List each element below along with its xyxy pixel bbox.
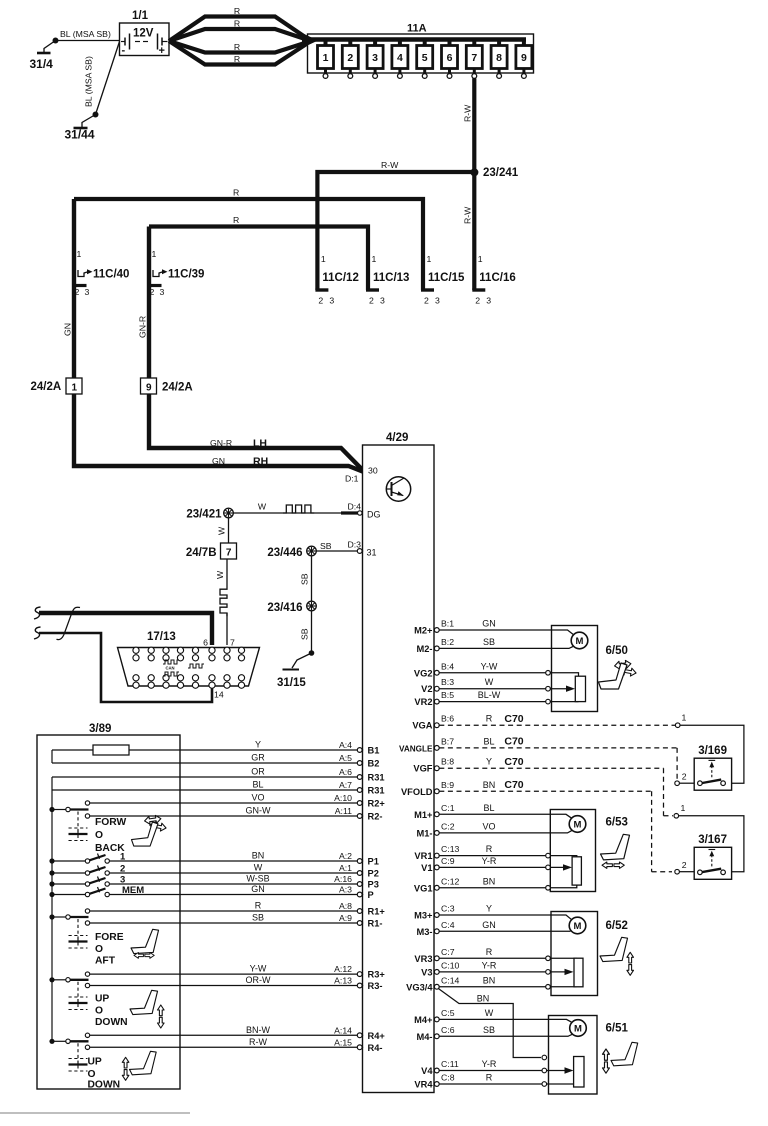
svg-text:R31: R31 [368,773,385,783]
svg-text:D:1: D:1 [345,474,359,484]
svg-text:1: 1 [120,852,126,863]
svg-text:VR3: VR3 [414,954,432,964]
svg-text:B:8: B:8 [441,757,454,767]
svg-text:BN: BN [483,876,496,886]
svg-text:1: 1 [321,254,326,264]
wire BN VG3/4 to 6/52 sensor [439,986,576,988]
wire R-W junction to connector 11C/16 [463,172,475,290]
svg-text:M: M [574,820,582,831]
svg-text:C:6: C:6 [441,1025,455,1035]
svg-text:W: W [215,570,225,579]
pin C:4 M3- of 4/29 [416,920,495,937]
svg-text:C:11: C:11 [441,1059,459,1069]
wire VO M1- to motor 6/53 [439,830,572,833]
svg-text:VG1: VG1 [414,883,433,893]
wire W with pulse signal to pin D:4 [233,502,380,520]
fuse 24/2A (1) [31,378,83,394]
svg-text:Y: Y [255,740,261,750]
svg-text:2: 2 [369,296,374,306]
svg-text:BL (MSA SB): BL (MSA SB) [60,29,111,39]
svg-text:VO: VO [482,821,495,831]
svg-text:R-W: R-W [463,206,473,224]
svg-text:C:10: C:10 [441,960,460,970]
svg-text:3: 3 [329,296,334,306]
svg-text:P3: P3 [368,880,379,890]
svg-text:DOWN: DOWN [95,1017,128,1028]
fuse 5 [417,40,433,79]
svg-text:R2+: R2+ [368,799,386,809]
svg-text:AFT: AFT [95,956,116,967]
seat icon up/down rear [122,1051,156,1080]
svg-text:R: R [234,6,240,16]
svg-text:GN: GN [212,456,225,466]
svg-text:FORW: FORW [95,817,127,828]
wire R VR4 to 6/51 sensor [439,1084,579,1087]
data link connector 17/13 [118,631,260,700]
svg-text:7: 7 [230,638,235,648]
wire W A:1 to 4/29 pin P2 [109,863,378,879]
svg-text:SB: SB [300,573,310,585]
svg-text:M4-: M4- [416,1032,432,1042]
svg-text:M3-: M3- [416,927,432,937]
position sensor resistor element in 3/89 [93,745,129,755]
svg-text:W: W [485,1008,494,1018]
wire GN-R (LH) from 11C/39 to module 4/29 pin 30 [138,227,363,471]
wire BL A:7 to 4/29 pin R31 [52,780,385,796]
motor symbol M 6/51 [570,1020,629,1087]
svg-text:MEM: MEM [122,885,144,896]
switch up/down (rear) in 3/89 [49,1033,120,1090]
svg-text:6: 6 [447,52,453,64]
svg-text:BL (MSA SB): BL (MSA SB) [84,56,94,107]
svg-text:BN-W: BN-W [246,1025,270,1035]
seat icon 6/50 [599,660,637,689]
svg-text:W: W [485,677,494,687]
svg-text:C:4: C:4 [441,920,455,930]
wire SB A:9 to 4/29 pin R1- [90,913,383,929]
svg-text:BN: BN [483,780,496,790]
svg-text:VGA: VGA [412,721,432,731]
svg-text:A:14: A:14 [334,1025,352,1035]
svg-text:B:9: B:9 [441,780,454,790]
svg-text:30: 30 [368,466,378,476]
connector 11C/15 [421,254,465,306]
seat icon 6/51 [603,1042,638,1073]
fuse 8 [491,40,507,79]
svg-text:V1: V1 [421,863,432,873]
wire R VR1 to 6/53 sensor [439,856,577,857]
svg-text:C:12: C:12 [441,876,460,886]
fuse 3 [367,40,383,79]
svg-text:M: M [574,1024,582,1035]
motor 6/52 (front height) box [551,912,598,996]
svg-text:C:14: C:14 [441,975,460,985]
svg-text:A:16: A:16 [334,874,352,884]
svg-text:C70: C70 [504,756,523,768]
page edge line [0,1112,190,1114]
wire Y A:4 to 4/29 pin B1 [52,740,379,756]
svg-text:OR-W: OR-W [246,975,271,985]
svg-text:11C/16: 11C/16 [479,272,515,284]
svg-text:R: R [233,215,239,225]
wire R A:8 to 4/29 pin R1+ [90,901,386,917]
svg-text:1: 1 [681,803,686,813]
pin C:2 M1- of 4/29 [416,821,495,838]
svg-text:2: 2 [424,296,429,306]
svg-text:M: M [574,921,582,932]
svg-text:W: W [217,526,227,535]
svg-text:1/1: 1/1 [132,10,149,22]
svg-text:12V: 12V [133,28,154,40]
svg-text:1: 1 [478,254,483,264]
svg-text:VR2: VR2 [414,697,432,707]
pin B:3 V2 of 4/29 [421,677,494,694]
wire Y-R V3 to 6/52 sensor wiper [439,969,573,975]
svg-text:B2: B2 [368,759,380,769]
svg-text:Y-R: Y-R [482,856,497,866]
wire GN M2+ to motor 6/50 [439,630,573,635]
pin B:1 M2+ of 4/29 [414,619,496,636]
svg-text:11C/12: 11C/12 [322,272,358,284]
svg-text:1: 1 [427,254,432,264]
svg-text:VG3/4: VG3/4 [406,982,433,992]
svg-text:FORE: FORE [95,932,124,943]
fuse 4 [392,40,408,79]
svg-text:GN: GN [63,323,73,336]
svg-text:A:9: A:9 [339,913,352,923]
svg-text:1: 1 [682,713,687,723]
svg-text:R: R [486,947,493,957]
wire SB 23/446 to 23/416 [300,556,312,601]
svg-text:B:1: B:1 [441,619,454,629]
seat icon forward/back [131,815,166,846]
svg-text:Y: Y [486,904,492,914]
svg-text:R1-: R1- [368,919,383,929]
wire Y B:8 (C70) to switch 3/167 pin 1 [439,756,744,872]
svg-text:C:5: C:5 [441,1008,455,1018]
pin C:14 VG3/4 of 4/29 [406,975,495,992]
svg-text:3: 3 [435,296,440,306]
terminals on 6/52 [546,956,551,961]
svg-text:R2-: R2- [368,812,383,822]
svg-text:23/446: 23/446 [267,547,302,559]
pin C:6 M4- of 4/29 [416,1025,495,1042]
wire BL (MSA SB) to battery [56,29,120,41]
svg-text:2: 2 [347,52,353,64]
svg-text:M2+: M2+ [414,626,433,636]
svg-text:24/2A: 24/2A [162,382,193,394]
fuse 7 [466,40,482,79]
seat icon fore/aft [131,929,159,958]
svg-text:31/15: 31/15 [277,677,306,689]
label RH [212,456,268,468]
motor symbol M 6/50 [571,632,628,701]
fuse 24/7B (7) [186,543,237,559]
svg-text:O: O [95,1005,103,1016]
svg-text:D:4: D:4 [347,502,361,512]
terminals on 6/53 [546,853,551,858]
svg-text:A:1: A:1 [339,863,352,873]
memory buttons 1/2/3/MEM in 3/89 [49,852,144,898]
svg-text:6/52: 6/52 [606,920,628,932]
svg-text:B:4: B:4 [441,661,454,671]
svg-text:P: P [368,890,374,900]
wire W from 23/421 down to 24/7B [217,518,229,543]
pin C:3 M3+ of 4/29 [414,904,492,921]
fuse 6 [442,40,458,79]
control module 4/29 [363,432,435,1093]
wire R to connector 11C/15 from 11C/40 branch [74,188,423,291]
svg-text:VO: VO [251,793,264,803]
svg-text:C70: C70 [504,779,523,791]
svg-text:LH: LH [253,438,267,450]
wire BN VG1 to 6/53 sensor [439,885,577,888]
svg-text:P1: P1 [368,857,379,867]
svg-text:3/89: 3/89 [89,723,111,735]
svg-text:9: 9 [521,52,527,64]
svg-text:4: 4 [397,52,403,64]
svg-text:6: 6 [203,638,208,648]
svg-text:B:3: B:3 [441,677,454,687]
svg-text:GN: GN [251,884,265,894]
wire R-W A:15 to 4/29 pin R4- [90,1037,383,1053]
svg-text:R: R [486,1073,493,1083]
pin B:4 VG2 of 4/29 [414,661,498,678]
terminals on 6/51 [542,1055,547,1060]
ground 31/15 [277,670,306,690]
connector 11C/39 [147,249,204,297]
supply rail in 3/89 [51,777,53,1041]
pin C:10 V3 of 4/29 [421,960,497,977]
pin C:7 VR3 of 4/29 [414,947,492,964]
wire VO A:10 to 4/29 pin R2+ [90,793,386,809]
switch fore/aft in 3/89 [49,909,123,967]
wire OR-W A:13 to 4/29 pin R3- [90,975,383,991]
svg-text:P2: P2 [368,869,379,879]
motor 6/53 (fore/aft) box [550,810,595,892]
terminal 23/446 [267,546,316,559]
svg-text:O: O [88,1069,96,1080]
wire W from 24/7B to connector 17/13 pin 7 [215,559,227,645]
svg-text:SB: SB [320,541,332,551]
svg-text:-: - [122,45,126,57]
svg-text:R31: R31 [368,786,385,796]
wire Y-W A:12 to 4/29 pin R3+ [90,964,386,980]
svg-text:A:13: A:13 [334,976,352,986]
svg-text:3: 3 [486,296,491,306]
battery feed wires R (4x) [169,6,311,65]
svg-text:2: 2 [475,296,480,306]
svg-text:DG: DG [367,510,381,520]
svg-text:1: 1 [372,254,377,264]
svg-text:9: 9 [146,383,152,394]
svg-text:Y-R: Y-R [482,1059,497,1069]
svg-text:A:7: A:7 [339,780,352,790]
pin C:11 V4 of 4/29 [421,1059,497,1076]
svg-text:3: 3 [372,52,378,64]
svg-text:11C/13: 11C/13 [373,272,409,284]
wire (thick) to 17/13 pin 6 [34,607,212,645]
svg-text:17/13: 17/13 [147,631,176,643]
svg-text:GN-W: GN-W [246,806,271,816]
svg-text:GN: GN [482,920,496,930]
svg-text:SB: SB [483,1025,495,1035]
pin B:9 VFOLD of 4/29 [401,780,495,797]
position sensor resistor in 3/89 (loop) [51,750,53,763]
wire BL (MSA SB) from 31/44 to battery [84,42,120,115]
svg-text:31/44: 31/44 [65,128,95,142]
svg-text:M1+: M1+ [414,810,433,820]
pin B:5 VR2 of 4/29 [414,690,500,707]
wire OR A:6 to 4/29 pin R31 [52,767,385,783]
svg-text:R: R [233,188,239,198]
svg-text:V2: V2 [421,684,432,694]
svg-text:C:7: C:7 [441,947,455,957]
svg-text:B:7: B:7 [441,736,454,746]
svg-text:14: 14 [214,690,224,700]
svg-text:7: 7 [226,548,232,559]
svg-text:4/29: 4/29 [386,432,408,444]
svg-text:R: R [486,844,493,854]
svg-text:CAN: CAN [166,666,175,671]
svg-text:Y-R: Y-R [482,960,497,970]
fuse 1 [318,40,334,79]
svg-text:Y-W: Y-W [481,661,498,671]
svg-text:GN-R: GN-R [210,438,232,448]
svg-text:UP: UP [88,1057,102,1068]
svg-text:7: 7 [471,52,477,64]
switch pack 3/89 [37,723,180,1089]
svg-text:B:6: B:6 [441,714,454,724]
svg-text:11C/15: 11C/15 [428,272,465,284]
svg-text:R: R [234,54,240,64]
pin B:7 VANGLE of 4/29 [399,736,495,753]
pin C:9 V1 of 4/29 [421,856,497,873]
wire Y-R V1 to 6/53 sensor wiper [439,864,572,870]
svg-text:Y: Y [486,757,492,767]
ground 31/4 [30,38,59,72]
svg-text:A:2: A:2 [339,851,352,861]
svg-text:1: 1 [77,249,82,259]
svg-text:VFOLD: VFOLD [401,787,433,797]
wire R-W junction to connector 11C/12 [317,160,474,290]
svg-text:D:3: D:3 [347,540,361,550]
wire SB M2- to motor 6/50 [439,646,574,648]
svg-text:31: 31 [367,548,377,558]
wire BL-W VR2 to 6/50 position sensor [439,701,578,703]
svg-text:Y-W: Y-W [250,964,267,974]
switch 3/167 [694,834,731,879]
svg-text:3: 3 [85,287,90,297]
svg-text:C:13: C:13 [441,844,460,854]
svg-text:3: 3 [120,875,125,886]
wire GN-W A:11 to 4/29 pin R2- [90,806,383,822]
svg-text:M4+: M4+ [414,1015,433,1025]
svg-text:V4: V4 [421,1066,433,1076]
svg-text:11A: 11A [407,23,427,35]
svg-text:R3+: R3+ [368,970,386,980]
motor 6/51 (rear height) box [549,1016,598,1095]
seat icon 6/53 [601,834,630,868]
svg-text:SB: SB [252,913,264,923]
svg-text:A:3: A:3 [339,885,352,895]
svg-text:DOWN: DOWN [88,1080,121,1091]
wire W M4+ to motor 6/51 [439,1019,572,1022]
svg-text:W-SB: W-SB [246,874,269,884]
terminals on 6/50 [546,671,551,676]
svg-text:R1+: R1+ [368,907,386,917]
wire BN VG3/4 to 6/51 sensor [438,988,541,1057]
wire W V2 to 6/50 position sensor wiper [439,686,575,692]
svg-text:VR4: VR4 [414,1080,433,1090]
wire BL B:7 (C70) to switch 3/169 pin 2 [439,736,694,786]
wire BN B:9 (C70) to switch 3/167 pin 2 [439,779,694,874]
fuse 9 [516,40,532,79]
svg-text:R: R [486,714,493,724]
switch up/down (front) in 3/89 [49,972,127,1028]
wire SB 23/416 to ground [292,611,314,668]
svg-text:O: O [95,944,103,955]
connector 11C/13 [366,254,409,306]
svg-text:BN: BN [483,975,496,985]
svg-text:2: 2 [682,772,687,782]
svg-text:GN-R: GN-R [138,316,148,338]
svg-text:M: M [576,636,584,647]
svg-text:B:2: B:2 [441,637,454,647]
svg-text:A:15: A:15 [334,1037,352,1047]
motor symbol M 6/53 [569,816,628,885]
connector 11C/12 [315,254,358,306]
svg-text:V3: V3 [421,967,432,977]
wire GN A:3 to 4/29 pin P [109,884,373,900]
svg-text:3/169: 3/169 [698,745,727,757]
svg-text:BL: BL [483,736,494,746]
wire R to connector 11C/13 from 11C/39 branch [149,215,368,290]
svg-text:8: 8 [496,52,502,64]
svg-text:VR1: VR1 [414,851,432,861]
pin B:2 M2- of 4/29 [416,637,495,654]
svg-text:11C/39: 11C/39 [168,269,204,281]
svg-text:2: 2 [120,864,125,875]
wire R-W from fuse 7 down [463,78,475,172]
svg-text:C:2: C:2 [441,821,455,831]
svg-text:A:6: A:6 [339,767,352,777]
pin C:8 VR4 of 4/29 [414,1073,492,1090]
wire GN M3- to motor 6/52 [439,930,570,932]
terminal 23/421 [186,508,233,520]
svg-text:1: 1 [72,383,78,394]
switch forward/back in 3/89 [49,801,126,854]
svg-text:R4-: R4- [368,1043,383,1053]
svg-text:6/50: 6/50 [606,645,628,657]
pin C:5 M4+ of 4/29 [414,1008,494,1025]
svg-text:1: 1 [152,249,157,259]
svg-text:VG2: VG2 [414,668,433,678]
svg-text:31/4: 31/4 [30,57,54,71]
wire R B:6 (C70) to switch 3/169 pin 1 [439,713,744,784]
svg-text:C:9: C:9 [441,856,455,866]
svg-text:C:3: C:3 [441,904,455,914]
wire BN-W A:14 to 4/29 pin R4+ [90,1025,386,1041]
pin 30 / D:1 [345,466,378,484]
svg-text:M2-: M2- [416,644,432,654]
svg-text:BL: BL [252,780,263,790]
svg-text:3/167: 3/167 [698,834,727,846]
terminal 23/416 [267,601,316,614]
motor symbol M 6/52 [569,917,628,987]
wire GR A:5 to 4/29 pin B2 [52,753,379,769]
svg-text:C:8: C:8 [441,1073,455,1083]
